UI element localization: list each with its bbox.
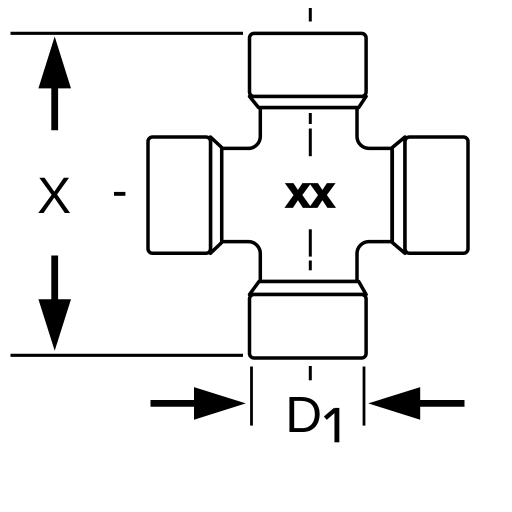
cross body bbox=[222, 108, 392, 282]
bottom chamfer bbox=[250, 282, 367, 295]
dash between X and part bbox=[114, 192, 125, 196]
right D1 arrow bbox=[368, 387, 464, 420]
right chamfer bbox=[392, 137, 405, 253]
left D1 arrow bbox=[151, 387, 246, 420]
svg-text:D: D bbox=[285, 386, 322, 443]
svg-text:xx: xx bbox=[286, 168, 335, 217]
top chamfer bbox=[250, 96, 367, 107]
down arrow bbox=[38, 256, 71, 351]
top cap bbox=[250, 33, 367, 96]
center line dashes bbox=[309, 8, 312, 380]
left cap bbox=[148, 137, 211, 253]
right cap bbox=[405, 137, 468, 253]
top dimension line bbox=[11, 32, 244, 35]
left extension line bbox=[250, 367, 253, 426]
right extension line bbox=[363, 367, 366, 426]
bottom cap bbox=[250, 295, 367, 359]
svg-text:X: X bbox=[37, 167, 71, 224]
bottom dimension line (X) bbox=[11, 354, 244, 357]
left chamfer bbox=[211, 137, 222, 253]
up arrow bbox=[38, 37, 71, 131]
